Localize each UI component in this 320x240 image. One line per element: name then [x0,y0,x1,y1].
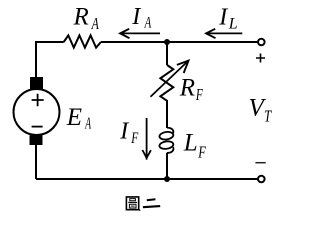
svg-text:E: E [66,104,82,131]
wire: top-left from left corner to resistor RA [36,42,64,77]
svg-text:F: F [197,143,206,162]
label + at positive terminal [256,54,265,63]
machine EA: bottom brush terminal (filled square) [30,135,43,145]
terminal: negative output (open circle) [258,176,265,183]
wire: left bottom from machine to bottom rail [35,145,37,179]
node A: junction dot top [164,39,170,45]
wire: field branch from node A down to RF [166,42,168,65]
current arrow IA [120,32,160,34]
rheostat RF zigzag [160,65,173,128]
svg-text:L: L [228,16,238,33]
resistor RA [64,35,101,47]
terminal: positive output (open circle) [258,39,265,46]
svg-text:I: I [218,5,228,31]
current arrow IL [206,32,242,34]
svg-text:L: L [183,129,198,156]
wire: top right from node A to terminal [167,41,258,43]
node B: junction dot bottom [164,176,170,182]
inductor LF coil [159,128,174,153]
caption: figure title glyph 圖 [126,197,140,211]
wire: top middle from RA to node A [101,41,167,43]
svg-text:R: R [179,75,195,102]
wire: field branch from LF to bottom node [166,153,168,179]
svg-text:F: F [130,130,138,147]
caption: figure title glyph 二 [143,199,160,207]
svg-text:I: I [119,119,129,145]
svg-text:A: A [144,15,151,32]
machine EA: top brush terminal (filled square) [30,77,43,89]
svg-text:R: R [73,4,89,31]
machine EA: internal + polarity [32,94,44,107]
label - at negative terminal [255,162,265,164]
svg-text:F: F [195,85,203,104]
svg-text:A: A [85,114,92,133]
wire: bottom rail [36,178,258,180]
machine EA: internal - polarity [32,126,43,128]
current arrow IF [146,118,148,160]
svg-text:I: I [131,4,141,30]
rheostat RF adjustment arrow [151,61,189,97]
svg-text:A: A [91,14,100,33]
machine EA: armature circle [14,89,60,135]
